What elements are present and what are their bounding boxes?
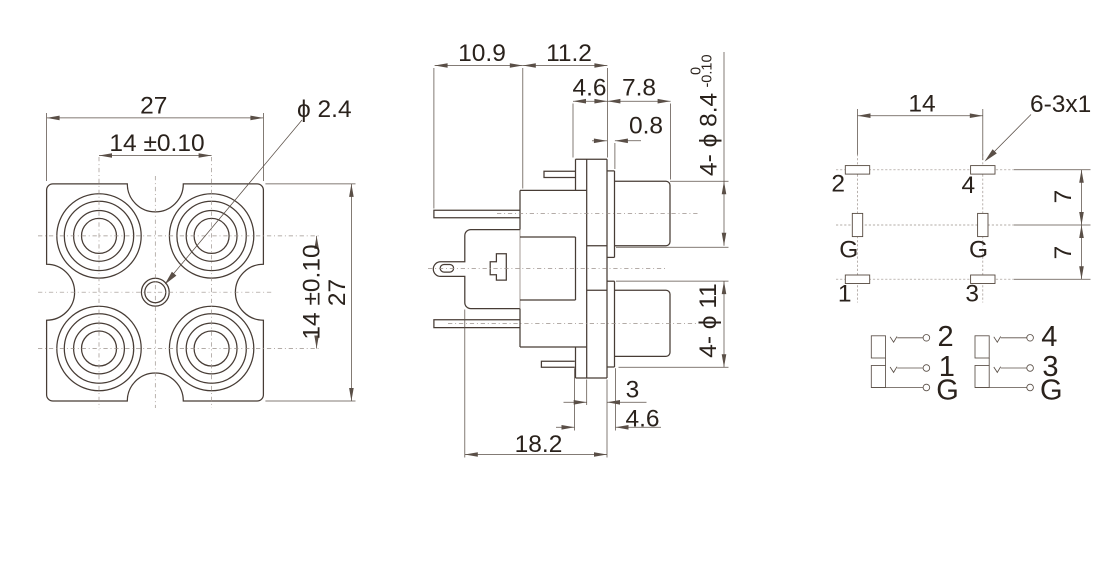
svg-text:G: G [936, 375, 959, 407]
svg-text:2: 2 [938, 321, 954, 353]
svg-text:G: G [969, 237, 988, 264]
svg-text:6-3x1: 6-3x1 [1030, 91, 1091, 118]
svg-text:4- ϕ 11: 4- ϕ 11 [695, 283, 722, 358]
svg-text:27: 27 [324, 279, 351, 306]
svg-text:4.6: 4.6 [572, 75, 606, 102]
svg-text:7.8: 7.8 [622, 75, 656, 102]
svg-text:18.2: 18.2 [515, 431, 563, 458]
svg-text:7: 7 [1050, 190, 1077, 204]
svg-text:14 ±0.10: 14 ±0.10 [298, 244, 325, 339]
svg-text:4: 4 [1041, 321, 1057, 353]
svg-text:10.9: 10.9 [458, 40, 506, 67]
svg-text:-0.10: -0.10 [700, 54, 716, 87]
svg-text:2: 2 [831, 171, 845, 198]
svg-text:G: G [839, 237, 858, 264]
svg-text:4.6: 4.6 [625, 405, 659, 432]
svg-text:4- ϕ 8.4: 4- ϕ 8.4 [696, 93, 723, 176]
svg-text:ϕ 2.4: ϕ 2.4 [297, 96, 352, 123]
svg-text:27: 27 [140, 93, 167, 120]
svg-text:4: 4 [962, 172, 976, 199]
svg-text:3: 3 [626, 377, 640, 404]
svg-text:14: 14 [908, 91, 935, 118]
svg-text:14 ±0.10: 14 ±0.10 [109, 130, 204, 157]
svg-text:11.2: 11.2 [546, 40, 592, 67]
svg-text:1: 1 [838, 281, 852, 308]
svg-text:7: 7 [1050, 246, 1077, 260]
svg-text:0.8: 0.8 [629, 113, 663, 140]
svg-text:3: 3 [965, 281, 979, 308]
svg-text:G: G [1040, 375, 1063, 407]
